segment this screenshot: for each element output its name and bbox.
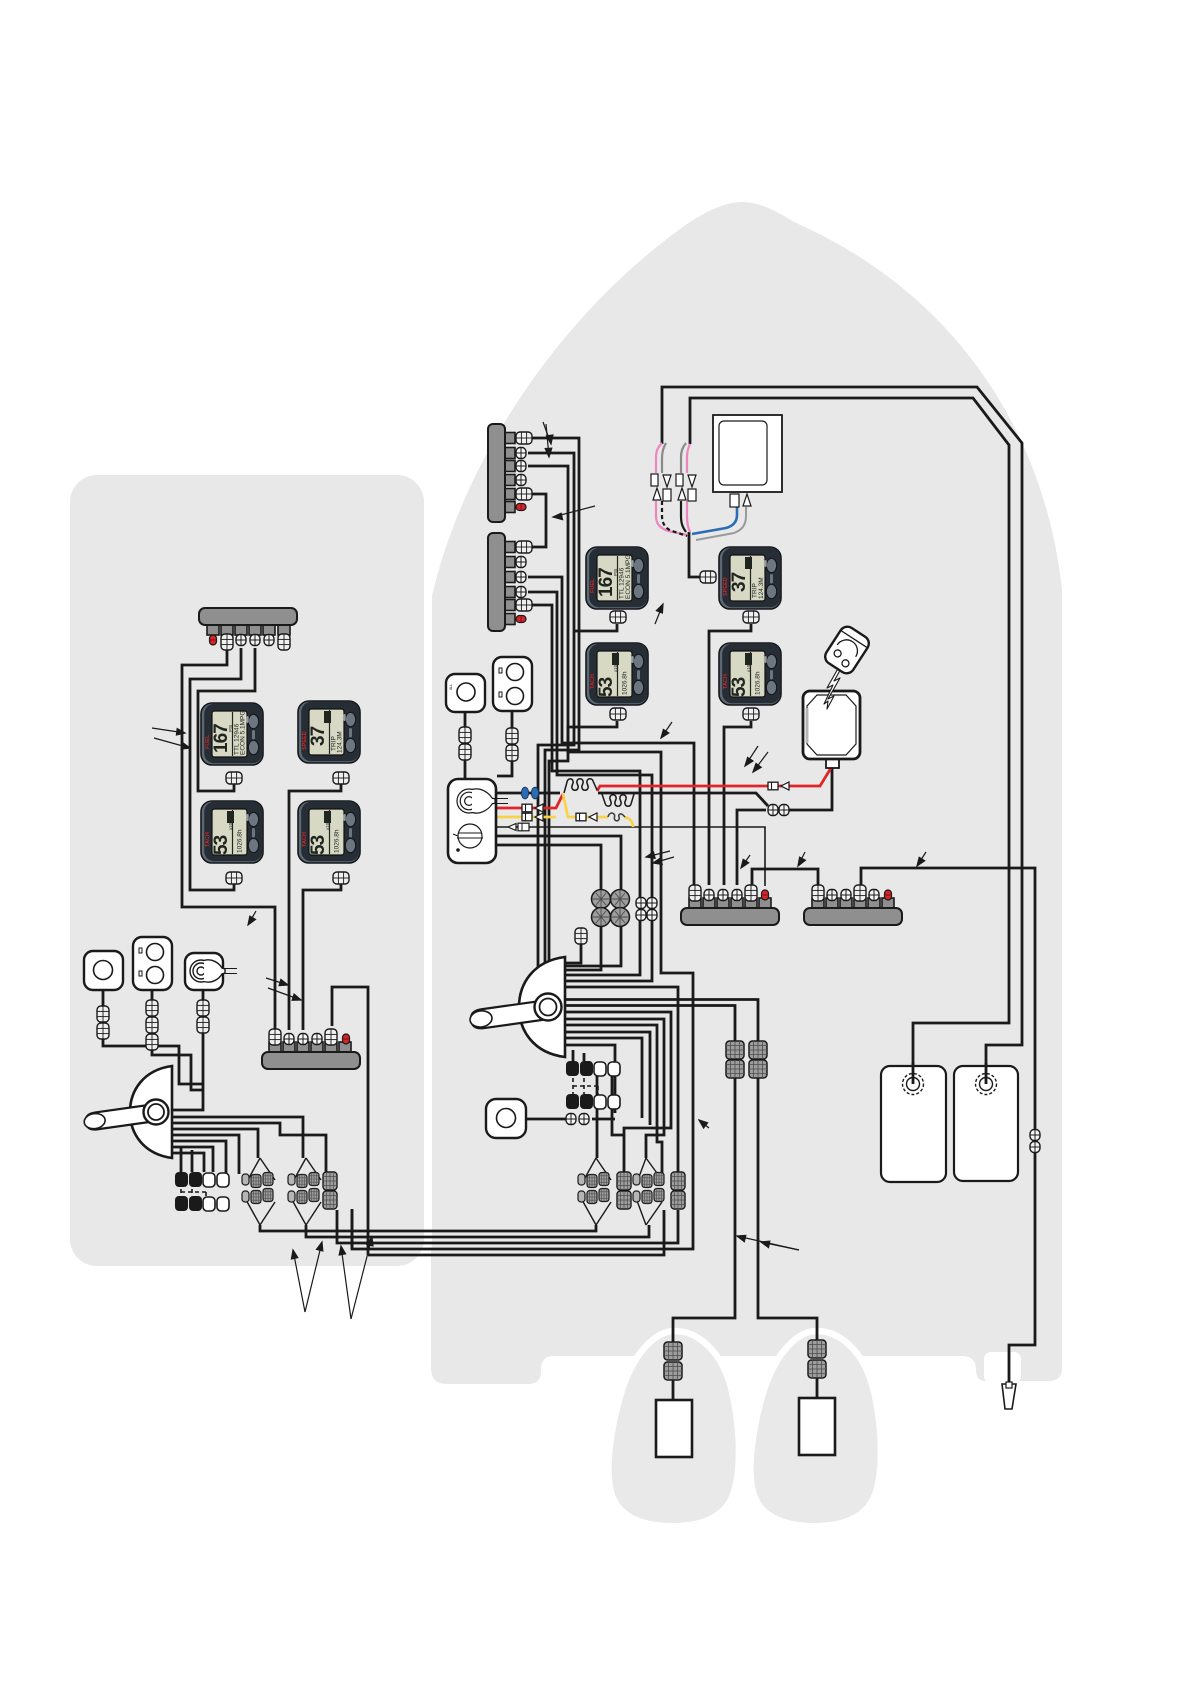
callout arrows to harness connectors xyxy=(646,851,670,857)
svg-text:124.3M: 124.3M xyxy=(758,577,765,599)
callout V arrows to left trunk wires xyxy=(293,1250,305,1312)
speed gauge wire to block1 xyxy=(709,624,751,885)
LP switch connector stacks xyxy=(97,1006,109,1022)
pink pair connectors right xyxy=(676,474,696,501)
left detail panel xyxy=(70,475,424,1266)
wire tach gauge L2 to left hub2 port3 xyxy=(303,884,341,1030)
callout arrows to hub A wires xyxy=(543,422,551,444)
svg-text:ECON 5.1MPG: ECON 5.1MPG xyxy=(240,711,247,755)
key switch panel xyxy=(448,779,508,863)
battery xyxy=(803,691,860,768)
callout arrows to left hub2 ports xyxy=(266,978,288,985)
callout arrow to block link wire xyxy=(741,855,750,868)
GPS module pigtail connector xyxy=(730,494,751,507)
engine cowl right xyxy=(750,1331,880,1526)
block2 xyxy=(804,885,902,925)
svg-text:TACH: TACH xyxy=(590,674,596,689)
LP switches xyxy=(84,951,123,990)
battery lightning arrow xyxy=(824,660,846,709)
boat hull xyxy=(431,202,1062,1384)
LP gauges xyxy=(201,703,263,765)
callout arrow to trunk wire xyxy=(699,1120,709,1128)
dual switch xyxy=(493,657,532,711)
squiggle coil below (on black feed) xyxy=(602,794,634,806)
trunk wire 5 xyxy=(368,1210,664,1255)
wire left hub port2 to left hub2 port1 xyxy=(182,648,275,1030)
wire remote control to switch pair xyxy=(565,1045,615,1113)
white gap backing for left panel xyxy=(62,467,432,1276)
callout arrows to left gauges xyxy=(152,728,185,733)
wire left control row4 xyxy=(172,1135,239,1174)
LP key switch xyxy=(185,953,237,990)
pink sensor wire pair left xyxy=(656,443,687,536)
wire hub B port4 to remote control xyxy=(528,592,652,981)
wire hub B port3 to junction block1 port1 xyxy=(528,577,694,886)
svg-text:PSI: PSI xyxy=(228,725,233,732)
callout arrows to tach gauge wires xyxy=(745,746,758,766)
throttle control center xyxy=(469,957,565,1057)
svg-text:53: 53 xyxy=(308,835,329,855)
svg-text:TACH: TACH xyxy=(723,674,729,689)
callout arrows to engine feed wires xyxy=(737,1236,799,1250)
wire trim connector feed a xyxy=(572,1050,575,1061)
svg-text:FUEL: FUEL xyxy=(205,734,211,749)
wire hub A port5 loop to hub B port1 xyxy=(531,494,546,547)
tach gauge assembly C1 xyxy=(586,643,648,705)
svg-text:ECON 5.1MPG: ECON 5.1MPG xyxy=(625,555,632,599)
wire dual switch L to control nest xyxy=(152,989,203,1090)
wire left control row6 xyxy=(172,1147,213,1172)
wire hub B port5 to remote control xyxy=(528,605,640,975)
svg-text:FUEL: FUEL xyxy=(590,578,596,593)
wire hub A port2 to remote control xyxy=(528,453,574,970)
svg-text:1026.8h: 1026.8h xyxy=(622,671,629,695)
key harness thick wires xyxy=(495,836,621,966)
diamond2 connectors xyxy=(633,1172,685,1209)
fuel tank 2 xyxy=(954,1066,1018,1181)
LP hub top xyxy=(199,608,297,650)
single connector above throttle xyxy=(575,928,587,944)
diamond1 connectors xyxy=(578,1172,631,1209)
hub bus A xyxy=(488,424,532,522)
wire single switch L to control nest xyxy=(103,990,203,1084)
svg-text:TACH: TACH xyxy=(302,832,308,847)
fuel gauge wire xyxy=(574,624,617,631)
svg-text:1026.8h: 1026.8h xyxy=(755,671,762,695)
svg-text:124.3M: 124.3M xyxy=(337,731,344,753)
svg-text:1026.8h: 1026.8h xyxy=(237,829,244,853)
squiggle coil above (on red feed) xyxy=(564,779,597,793)
wire left control row5 xyxy=(172,1141,226,1174)
wire left hub2 port5 to trunk xyxy=(332,987,368,1255)
fuel gauge assembly xyxy=(586,547,648,609)
thin lanyard row xyxy=(495,827,765,886)
transducer white slot xyxy=(984,1352,1021,1383)
LP trim group xyxy=(175,1172,229,1211)
callout arrow to hub loop wire xyxy=(553,506,595,517)
svg-text:TACH: TACH xyxy=(205,832,211,847)
svg-text:37: 37 xyxy=(308,726,329,746)
tach2 gauge wire to block1 xyxy=(724,721,751,885)
wire remote control to engine 1 connector stack xyxy=(565,1006,735,1051)
wire engine 2 pigtail xyxy=(816,1378,819,1398)
wire block2 to transducer xyxy=(861,868,1035,1384)
transducer wire connectors xyxy=(1030,1130,1040,1141)
wire left trim feeds xyxy=(181,1146,192,1172)
wire left control row2 to big connector xyxy=(172,1123,326,1172)
svg-text:37: 37 xyxy=(729,572,750,592)
single switch xyxy=(446,674,485,712)
trunk wire 2 xyxy=(306,1225,649,1237)
LP diamond 2 xyxy=(291,1158,321,1225)
wire left control row1 to diamond 2 xyxy=(172,1117,303,1158)
trunk wire 4 riser xyxy=(351,1210,354,1249)
svg-text:PSI: PSI xyxy=(613,569,618,576)
speed gauge assembly xyxy=(719,547,781,609)
wire trim switch to pair connectors xyxy=(526,1118,615,1121)
hub bus B xyxy=(488,533,532,631)
wire left control row3 to diamond 1 xyxy=(172,1129,258,1158)
svg-text:1026.8h: 1026.8h xyxy=(334,829,341,853)
pink sensor wire pair right xyxy=(681,443,690,532)
wire trim connector feed b xyxy=(583,1053,586,1061)
wire left control row7 xyxy=(172,1153,204,1172)
engine 1 control unit xyxy=(656,1400,692,1457)
round connectors on key harness xyxy=(592,890,630,927)
trunk wire 3 xyxy=(337,1210,678,1243)
wire remote control to diamond 2 connectors xyxy=(565,1025,662,1174)
LP hub bottom xyxy=(262,1029,360,1069)
speed transducer xyxy=(1002,1384,1016,1409)
svg-text:SPEED: SPEED xyxy=(723,577,729,596)
wire to fuel tank 2 (outer run) xyxy=(662,387,1022,1074)
block1 wires going up are drawn above; block1 xyxy=(681,885,779,925)
callout arrow to left harness corner xyxy=(248,911,256,925)
callout arrow to junction block2 xyxy=(917,852,926,866)
engine 1 harness connector stack xyxy=(726,1041,744,1059)
engine 2 control unit xyxy=(799,1398,835,1455)
block1 feed wires xyxy=(737,810,766,885)
fuel tank 1 xyxy=(881,1063,1018,1182)
engine 2 harness connector stack xyxy=(749,1041,767,1059)
LP throttle xyxy=(83,1066,172,1158)
yellow wire xyxy=(495,794,633,827)
tach gauge assembly C2 xyxy=(719,643,781,705)
svg-text:53: 53 xyxy=(596,677,617,697)
black wire key to battery xyxy=(495,768,832,970)
wire trim rail to big connector 1 xyxy=(612,1076,624,1135)
wire remote control to engine 2 connector stack xyxy=(565,1000,758,1051)
wire remote control to big harness connector 2 xyxy=(565,987,678,1172)
engine cowl left xyxy=(608,1331,738,1526)
wire remote control to big harness connector 1 xyxy=(565,1012,671,1172)
pink pair connectors left xyxy=(651,474,671,501)
wire trim rail to diamond 1 xyxy=(596,1076,599,1158)
blue bullet connectors xyxy=(521,787,528,799)
wire engine 1 drop xyxy=(673,1078,735,1342)
horn xyxy=(822,624,872,677)
bullet connectors on rows xyxy=(522,804,543,812)
harness diamond 1 xyxy=(581,1158,611,1225)
wire engine 2 drop xyxy=(758,1078,817,1340)
engine 1 pigtail connectors xyxy=(664,1342,682,1360)
white switch xyxy=(486,1099,526,1138)
wire left hub port4 to fuel gauge L xyxy=(198,648,255,791)
svg-text:53: 53 xyxy=(729,677,750,697)
blue + gray wires from GPS module xyxy=(692,507,737,534)
battery black pair connectors xyxy=(768,805,778,816)
wire speed gauge L to left hub2 port2 xyxy=(289,784,341,1030)
wire remote control stub a xyxy=(565,1032,650,1125)
wire speed sensor down from junction xyxy=(689,532,701,577)
wire hub A port1 to remote control xyxy=(528,438,579,975)
wire hub A port3 to junction block 1 trunk xyxy=(352,466,693,1249)
wire left hub port3 to tach gauge L1 xyxy=(190,648,241,890)
gauge pigtail connectors xyxy=(610,611,626,623)
bridge block1 conn5 to block2 conn1 xyxy=(752,869,818,885)
svg-text:ALL: ALL xyxy=(449,684,453,690)
wire to fuel tank 1 (inner run) xyxy=(690,398,1009,1074)
callout arrow to speed gauge connector xyxy=(655,604,663,624)
wire key switch L to remote control xyxy=(172,990,203,1110)
callout arrow to gauge wire xyxy=(661,722,672,738)
trunk wire 1 left diamond to center diamond xyxy=(260,1225,596,1231)
connector stacks below switches xyxy=(459,727,471,743)
red wire xyxy=(495,768,831,808)
white pairs on columns 640/652 xyxy=(636,898,646,909)
svg-text:SPEED: SPEED xyxy=(302,731,308,750)
GPS module xyxy=(713,415,782,492)
harness diamond 2 xyxy=(636,1158,662,1225)
wire engine 1 pigtail xyxy=(672,1380,675,1400)
engine 2 pigtail connectors xyxy=(808,1340,826,1358)
svg-text:53: 53 xyxy=(211,835,232,855)
callout arrow to junction block1 xyxy=(798,852,805,866)
wire remote control to harness diamond 2 xyxy=(565,1019,664,1158)
wire remote control stub b xyxy=(565,1038,642,1118)
trim connector group center xyxy=(566,1061,620,1109)
LP diamond 1 xyxy=(245,1158,275,1225)
tach1 gauge wire xyxy=(549,721,617,985)
